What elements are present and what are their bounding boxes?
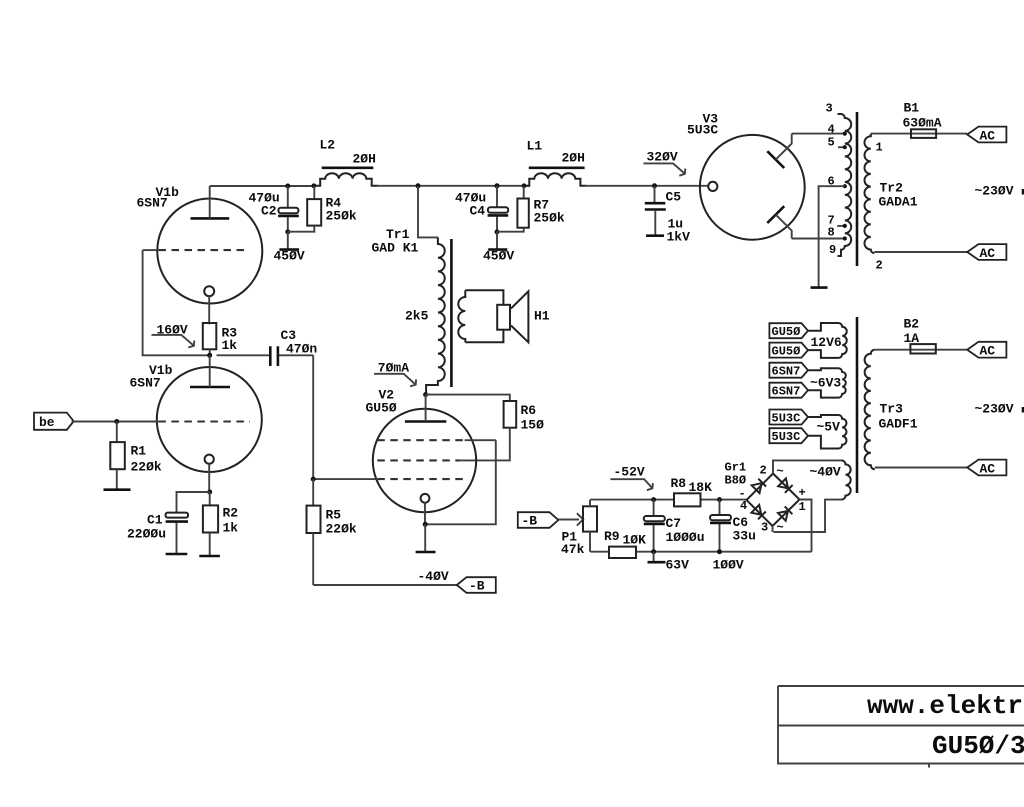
connector -B (bias source) [518, 512, 559, 528]
winding Tr3 5V [808, 415, 846, 449]
svg-text:AC: AC [980, 129, 996, 144]
svg-text:1A: 1A [904, 331, 920, 346]
svg-text:~4ØV: ~4ØV [810, 465, 841, 480]
svg-text:AC: AC [980, 246, 996, 261]
resistor R6 [460, 401, 544, 460]
net label 70mA [374, 360, 416, 386]
svg-text:~: ~ [777, 465, 784, 479]
svg-text:22Øk: 22Øk [326, 522, 357, 537]
svg-text:1ØK: 1ØK [623, 533, 647, 548]
wire bias bottom rail [590, 551, 811, 553]
svg-text:H1: H1 [534, 309, 550, 324]
svg-text:6SN7: 6SN7 [772, 365, 801, 379]
wire V2 plate to R6 [426, 395, 510, 401]
node V1b lower cathode [207, 490, 212, 495]
labels Tr2 primary pins [876, 141, 883, 273]
svg-text:3: 3 [761, 521, 768, 535]
connector tag 5U3C (1) [769, 410, 808, 426]
connector AC 2 [967, 244, 1006, 261]
title block table [778, 686, 1024, 768]
svg-text:-B: -B [469, 579, 485, 594]
svg-text:1k: 1k [222, 338, 238, 353]
transformer Tr3 core [856, 317, 859, 493]
svg-text:R2: R2 [223, 506, 239, 521]
capacitor C5 [645, 186, 690, 245]
svg-text:1ØØØu: 1ØØØu [666, 530, 705, 545]
svg-text:47Øn: 47Øn [286, 342, 317, 357]
resistor R5 [307, 479, 357, 585]
node be/R1 [114, 419, 119, 424]
svg-text:~5V: ~5V [817, 420, 841, 435]
node V2 plate [423, 392, 428, 397]
wire R5 to -B [313, 584, 457, 586]
svg-text:63V: 63V [666, 558, 690, 573]
node Tr2 pin5 [843, 145, 847, 149]
winding Tr3 12V6 [808, 323, 847, 358]
svg-text:25Øk: 25Øk [534, 211, 565, 226]
svg-text:45ØV: 45ØV [274, 249, 305, 264]
wire rail L2 to L1 [376, 185, 529, 187]
transformer Tr1 core [450, 239, 453, 387]
node C6 bottom [717, 549, 722, 554]
node C4 top [495, 183, 500, 188]
input connector be [34, 413, 158, 430]
wire Tr3 40V winding bottom to bridge ac bottom [773, 500, 842, 532]
transformer Tr1 secondary [458, 290, 503, 342]
svg-text:2: 2 [760, 464, 767, 478]
svg-text:GU5Ø: GU5Ø [366, 401, 397, 416]
svg-text:4: 4 [828, 123, 835, 137]
svg-text:47k: 47k [561, 542, 585, 557]
svg-text:C4: C4 [470, 204, 486, 219]
svg-text:6SN7: 6SN7 [130, 376, 161, 391]
wire bridge ac top to Tr3 40V winding [773, 460, 842, 473]
fuse B1 [903, 101, 942, 138]
svg-text:63ØmA: 63ØmA [903, 116, 942, 131]
cut-off text at right edge (Tr3 row) [1022, 407, 1024, 413]
wire bridge plus output [800, 500, 812, 552]
svg-text:R8: R8 [671, 476, 687, 491]
node Tr2 pin4 [843, 132, 847, 136]
svg-text:-4ØV: -4ØV [418, 569, 449, 584]
svg-text:6SN7: 6SN7 [772, 385, 801, 399]
svg-text:B1: B1 [904, 101, 920, 116]
svg-text:C5: C5 [666, 190, 682, 205]
svg-text:R1: R1 [131, 444, 147, 459]
resistor R3 [203, 323, 238, 355]
svg-text:2ØH: 2ØH [353, 152, 376, 167]
capacitor C4 [455, 186, 508, 232]
node C5 [652, 183, 657, 188]
resistor R9 [604, 529, 646, 558]
wire -B arrow to P1 [558, 513, 583, 525]
svg-text:B2: B2 [904, 317, 920, 332]
svg-text:1: 1 [799, 500, 806, 514]
wire Tr2 primary bottom to AC [874, 251, 967, 253]
svg-text:Tr2: Tr2 [880, 181, 904, 196]
bridge rectifier Gr1 B80 [747, 474, 800, 527]
transformer Tr3 primary [865, 350, 875, 470]
svg-text:R6: R6 [521, 403, 537, 418]
node R4 top [312, 183, 317, 188]
node Tr2 pin6 [843, 184, 847, 188]
svg-text:12V6: 12V6 [811, 335, 842, 350]
svg-text:25Øk: 25Øk [326, 209, 357, 224]
svg-text:www.elektr: www.elektr [867, 691, 1023, 721]
connector AC 3 [967, 342, 1006, 359]
svg-text:5: 5 [828, 136, 835, 150]
node C2 top [285, 184, 290, 189]
winding Tr3 ~40V [810, 460, 851, 499]
svg-text:2k5: 2k5 [405, 309, 429, 324]
svg-text:2: 2 [876, 259, 883, 273]
ground terminal Tr2 pin6 [811, 286, 828, 289]
svg-text:GU5Ø: GU5Ø [772, 344, 801, 358]
node R7 top [522, 183, 527, 188]
svg-text:1kV: 1kV [667, 230, 691, 245]
svg-text:9: 9 [829, 243, 836, 257]
potentiometer P1 [561, 500, 597, 557]
net label -52V [610, 465, 653, 491]
node C2 bottom [285, 229, 290, 234]
svg-text:B8Ø: B8Ø [725, 474, 747, 488]
resistor R7 [497, 186, 565, 232]
svg-text:32ØV: 32ØV [647, 150, 678, 165]
connector tag 6SN7 (1) [769, 363, 808, 379]
svg-text:+: + [799, 486, 806, 500]
connector tag GU50 (1) [769, 323, 808, 339]
wire V1b lower plate to V1b upper grid [143, 250, 210, 355]
connector AC 4 [967, 460, 1006, 477]
connector AC 1 [967, 127, 1006, 144]
labels bridge pins [725, 461, 806, 535]
connector tag 6SN7 (2) [769, 383, 808, 399]
capacitor C6 [710, 500, 756, 552]
svg-text:1ØØV: 1ØØV [713, 558, 744, 573]
ground terminal C1 [166, 553, 188, 556]
svg-text:-52V: -52V [614, 465, 645, 480]
resistor R4 [288, 186, 357, 232]
wire C3 to V2 grid [312, 355, 314, 479]
net terminal 450V (C2) [274, 232, 305, 264]
cut-off text at right edge (Tr2 row) [1022, 189, 1024, 195]
svg-text:22ØØu: 22ØØu [127, 527, 166, 542]
net terminal 450V (C4) [483, 232, 514, 264]
wire V2 suppressor to cathode [425, 440, 496, 524]
tube V2 GU50 [313, 395, 496, 525]
svg-text:6SN7: 6SN7 [137, 196, 168, 211]
resistor R1 [110, 422, 162, 490]
connector -B (bias feed) [457, 577, 496, 593]
svg-text:15Ø: 15Ø [521, 418, 545, 433]
svg-text:22Øk: 22Øk [131, 460, 162, 475]
node R5 top [311, 477, 316, 482]
svg-text:GADF1: GADF1 [879, 417, 918, 432]
transformer Tr2 core [856, 112, 859, 266]
svg-text:Gr1: Gr1 [725, 461, 747, 475]
labels Tr2 secondary pins [826, 102, 837, 258]
svg-text:3: 3 [826, 102, 833, 116]
transformer Tr1 primary winding 2k5 [405, 237, 445, 394]
svg-text:be: be [39, 415, 55, 430]
wire Tr2 primary top to fuse [871, 133, 967, 135]
node C7 bottom [651, 549, 656, 554]
transformer Tr2 primary winding [864, 134, 874, 254]
capacitor C1 [127, 492, 210, 553]
svg-text:1k: 1k [223, 521, 239, 536]
node V2 cathode [423, 522, 428, 527]
wire main B+ rail left [210, 185, 314, 187]
tube V3 5U3C [700, 134, 805, 240]
svg-text:C7: C7 [666, 516, 682, 531]
ground terminal R2 [199, 555, 220, 558]
wire Tr3 primary bottom to AC [875, 467, 967, 469]
svg-text:33u: 33u [733, 529, 756, 544]
node C6 top [717, 497, 722, 502]
fuse B2 [904, 317, 936, 354]
inductor L1 [524, 139, 586, 186]
svg-text:R5: R5 [326, 508, 342, 523]
speaker H1 [497, 291, 550, 342]
resistor R8 [671, 476, 713, 506]
ground terminal V2 cathode [416, 524, 436, 552]
svg-text:C1: C1 [147, 513, 163, 528]
capacitor C7 [644, 500, 705, 552]
connector tag 5U3C (2) [769, 428, 808, 444]
svg-text:R9: R9 [604, 529, 620, 544]
node C4 bottom [495, 229, 500, 234]
svg-text:GU5Ø: GU5Ø [772, 325, 801, 339]
svg-text:~23ØV: ~23ØV [975, 184, 1014, 199]
svg-text:~23ØV: ~23ØV [975, 402, 1014, 417]
svg-text:Tr3: Tr3 [880, 402, 904, 417]
net label 160V [152, 323, 195, 348]
wire bias top rail [590, 499, 674, 501]
wire V3 plate 2 to Tr2 pin 8 [792, 238, 845, 240]
terminal C5 bottom [646, 234, 664, 237]
node Tr2 pin8 [843, 236, 847, 240]
svg-text:GU5Ø/3: GU5Ø/3 [932, 731, 1024, 761]
capacitor C2 [249, 186, 299, 232]
svg-text:~6V3: ~6V3 [810, 376, 841, 391]
connector tag GU50 (2) [769, 343, 808, 359]
svg-text:AC: AC [980, 462, 996, 477]
svg-text:6: 6 [828, 175, 835, 189]
svg-text:1: 1 [876, 141, 883, 155]
wire V3 plate 1 to Tr2 pin 4 [792, 133, 845, 135]
svg-text:AC: AC [980, 344, 996, 359]
capacitor C3 [217, 328, 318, 366]
svg-text:4: 4 [740, 499, 747, 513]
svg-text:GAD K1: GAD K1 [372, 241, 419, 256]
svg-text:2ØH: 2ØH [562, 151, 585, 166]
svg-text:5U3C: 5U3C [687, 123, 718, 138]
svg-text:L1: L1 [527, 139, 543, 154]
node 160V junction [207, 353, 212, 358]
wire rail to Tr1 primary [418, 186, 438, 237]
terminal 63V [648, 552, 690, 573]
svg-text:GADA1: GADA1 [879, 195, 918, 210]
svg-text:L2: L2 [320, 138, 336, 153]
net label 320V [643, 150, 685, 176]
wire rail L1 to V3 cathode [584, 185, 708, 187]
resistor R2 [203, 492, 238, 555]
svg-text:18K: 18K [689, 480, 713, 495]
wire Tr3 primary top to fuse [875, 349, 967, 351]
svg-text:5U3C: 5U3C [772, 411, 801, 425]
svg-text:5U3C: 5U3C [772, 430, 801, 444]
inductor L2 [314, 138, 378, 186]
tube V1b upper 6SN7 [143, 186, 263, 324]
ground terminal R1 [104, 488, 131, 491]
node Tr1 top [416, 183, 421, 188]
node Tr2 pin7 [843, 224, 847, 228]
svg-text:8: 8 [828, 226, 835, 240]
node C7 top [651, 497, 656, 502]
svg-text:-B: -B [522, 514, 538, 529]
wire Tr2 pin6 to chassis [819, 186, 845, 287]
winding Tr3 6V3 [808, 368, 846, 397]
transformer Tr2 secondary winding [837, 114, 851, 256]
svg-text:C2: C2 [261, 204, 277, 219]
svg-text:45ØV: 45ØV [483, 249, 514, 264]
tube V1b lower 6SN7 [157, 355, 262, 492]
